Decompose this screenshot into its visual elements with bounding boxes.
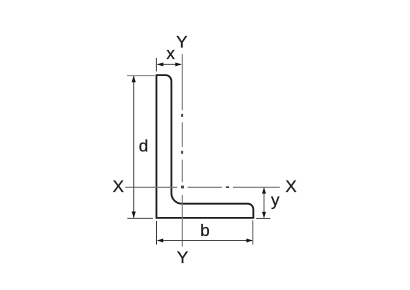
extension line b right (252, 220, 254, 244)
svg-text:Y: Y (177, 248, 188, 267)
svg-text:y: y (271, 191, 280, 210)
Y axis (dash-dot centerline) (181, 54, 183, 247)
dimension b (157, 221, 253, 242)
dimension y (262, 187, 280, 218)
svg-text:x: x (166, 44, 175, 63)
extension line d top (127, 75, 155, 77)
dimension d (132, 76, 149, 218)
centroid dot (181, 186, 184, 189)
axis dot on Y axis (middle) (181, 151, 183, 154)
extension line for x (left) (155, 58, 157, 72)
extension line y bottom (256, 217, 270, 219)
X axis (dash-dot centerline) (125, 186, 280, 188)
extension line d bottom (127, 217, 153, 219)
angle profile outline (156, 75, 253, 218)
svg-text:d: d (139, 136, 148, 155)
dimension x (157, 44, 182, 66)
svg-text:b: b (200, 221, 209, 240)
svg-text:X: X (113, 177, 124, 196)
axis dot on X axis (right of centroid) (226, 186, 229, 188)
svg-text:Y: Y (176, 33, 187, 52)
axis dot on Y axis (upper) (181, 114, 183, 117)
svg-text:X: X (285, 177, 296, 196)
extension line b left (156, 221, 158, 245)
